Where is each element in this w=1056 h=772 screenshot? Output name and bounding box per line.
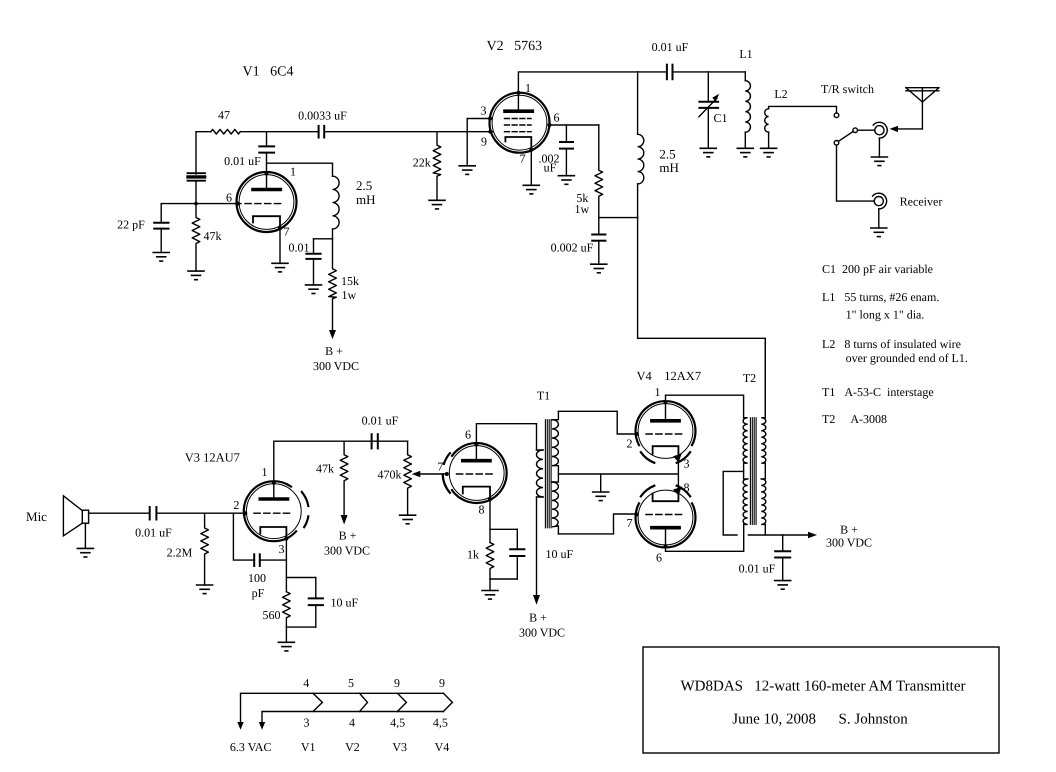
tube V4a grid (646, 433, 682, 435)
svg-text:9: 9 (481, 135, 487, 149)
svg-text:47k: 47k (204, 229, 222, 243)
wire 100pF to cathode line (261, 559, 287, 561)
arrow mark V4b cathode exit (673, 487, 682, 496)
wire V1 pin7 to ground (279, 229, 281, 263)
junction crystal/47k node (194, 202, 198, 206)
wire V4a plate to T2 (666, 395, 744, 418)
wire V3a cathode down (285, 539, 287, 592)
capacitor 0.01 uF mic (150, 507, 157, 520)
ground antenna jack (871, 157, 887, 166)
capacitor 0.01 uF coupling top (667, 65, 673, 80)
tube V2 envelope (490, 93, 550, 153)
svg-text:T2: T2 (743, 371, 756, 385)
svg-text:10 uF: 10 uF (331, 596, 359, 610)
svg-text:0.01: 0.01 (289, 241, 310, 255)
pin dot V4b pin6 (664, 544, 668, 548)
pin dot V3b pin7 (445, 472, 449, 476)
svg-text:47k: 47k (316, 462, 334, 476)
crystal Y1 (188, 173, 206, 181)
notes text block (822, 262, 968, 426)
svg-text:9: 9 (394, 676, 400, 690)
capacitor 22 pF (154, 204, 168, 253)
svg-text:8: 8 (479, 503, 485, 517)
svg-text:560: 560 (263, 608, 281, 622)
tube V3b grid (457, 473, 493, 475)
wire plate feedback branch (267, 163, 333, 176)
svg-text:mH: mH (356, 192, 376, 207)
svg-text:7: 7 (437, 460, 443, 474)
ground 0.002 cap (591, 264, 607, 273)
tube V1 cathode (253, 216, 280, 229)
wire V2 pin3 branch (467, 119, 488, 132)
arrow B+ T2 (808, 532, 817, 538)
wiper arrow 470k (412, 471, 447, 477)
inductor 2.5 mH plate choke (638, 134, 644, 217)
transformer T2 primary lower (743, 479, 748, 525)
svg-text:7: 7 (627, 516, 633, 530)
microphone symbol (63, 496, 88, 549)
svg-text:V4 12AX7: V4 12AX7 (637, 369, 702, 383)
svg-text:V3: V3 (392, 740, 407, 754)
resistor 560 (283, 592, 291, 627)
capacitor 10 uF V3b (510, 529, 524, 579)
svg-text:T1: T1 (537, 389, 550, 403)
transformer T2 secondary lower (761, 479, 766, 535)
wire choke bottom junction (314, 238, 333, 240)
capacitor .002 uF screen (560, 125, 573, 176)
svg-text:1k: 1k (467, 548, 479, 562)
ground .002 cap (558, 176, 574, 185)
resistor 47k (192, 204, 200, 272)
heater tube labels (301, 740, 449, 754)
wire V3b plate to T1 (476, 424, 536, 444)
tube V4b plate (652, 528, 679, 546)
resistor 5k 1w (595, 125, 603, 218)
svg-text:V1: V1 (301, 740, 316, 754)
ground 22pF (153, 253, 169, 262)
svg-text:L1 55 turns, #26 enam.: L1 55 turns, #26 enam. (822, 290, 939, 304)
tube V3b envelope (443, 443, 507, 503)
title box frame (643, 647, 999, 753)
capacitor 10 uF cathode (309, 578, 323, 628)
wire V3b cathode down (489, 499, 491, 542)
svg-text:22 pF: 22 pF (117, 218, 145, 232)
svg-text:6: 6 (656, 551, 662, 565)
wire mic to coupling cap (89, 512, 150, 514)
svg-text:15k: 15k (341, 274, 359, 288)
wire 1k bottom tee (490, 578, 517, 580)
svg-text:0.01 uF: 0.01 uF (224, 154, 261, 168)
svg-text:L2 8 turns of insulated wire: L2 8 turns of insulated wire (822, 337, 961, 351)
resistor 2.2M (201, 513, 209, 585)
svg-text:8: 8 (684, 481, 690, 495)
ground 1k (482, 591, 498, 600)
wire cathode tee to 10uF (490, 528, 517, 530)
svg-text:over grounded end of L1.: over grounded end of L1. (846, 351, 968, 365)
arrow heater left 1 (237, 722, 243, 730)
transformer T1 secondary lower (552, 482, 559, 534)
svg-text:June 10, 2008 S. Johnston: June 10, 2008 S. Johnston (732, 712, 908, 728)
wire 0.0033 cap to V2 grid line (325, 131, 492, 133)
wire cap to V3a grid (157, 512, 245, 514)
capacitor 0.0033 uF (319, 126, 325, 138)
arrow B+ V3a (341, 515, 348, 525)
svg-text:1: 1 (655, 385, 661, 399)
switch arm (838, 131, 853, 141)
ground V2 cathode (523, 185, 539, 194)
pin dot V1 pin7 (278, 226, 282, 230)
receiver jack connector (873, 193, 887, 228)
tube V4a envelope (636, 401, 696, 463)
ground 47k (188, 271, 204, 280)
svg-text:C1: C1 (713, 111, 727, 125)
tube V1 grid (245, 203, 281, 205)
tube V2 plate (505, 93, 532, 111)
tube V4b grid (646, 514, 682, 516)
pin dot V3b pin6 (474, 442, 478, 446)
pin dot V2 pin9 (488, 130, 492, 134)
arrow B+ T1 (533, 595, 540, 605)
svg-text:WD8DAS 12-watt 160-meter AM: WD8DAS 12-watt 160-meter AM Transmitter (681, 679, 966, 695)
svg-text:7: 7 (284, 225, 290, 239)
tube V4b cathode (653, 490, 679, 501)
resistor 47k plate load (340, 441, 348, 517)
switch contact top (834, 113, 839, 118)
wire B+ line right segment (748, 534, 810, 536)
tube V2 grid1 row (505, 118, 532, 120)
resistor 47 (211, 129, 241, 134)
wire 100pF branch (233, 513, 253, 560)
ground mic (77, 548, 93, 557)
ground V1 cathode (272, 263, 288, 272)
ground receiver jack (871, 228, 887, 237)
svg-text:1w: 1w (574, 202, 589, 216)
svg-text:1w: 1w (342, 288, 357, 302)
svg-text:V2 5763: V2 5763 (486, 39, 542, 54)
svg-text:6: 6 (226, 191, 232, 205)
wire 560 to ground (285, 627, 287, 642)
svg-text:B +: B + (529, 611, 547, 625)
svg-text:6.3 VAC: 6.3 VAC (230, 740, 272, 754)
svg-text:0.01 uF: 0.01 uF (652, 40, 689, 54)
wire V2 pin7 to ground (530, 150, 532, 185)
heater chevron V2-V3 (360, 693, 368, 711)
wire cathode net top (286, 577, 315, 579)
svg-text:9: 9 (439, 676, 445, 690)
svg-text:7: 7 (520, 152, 526, 166)
tube V3a plate (260, 482, 287, 500)
pin dot V2 pin7 (529, 148, 533, 152)
wire V1 grid line (161, 203, 241, 205)
svg-text:uF: uF (544, 161, 557, 175)
wire top node down to choke (637, 72, 639, 134)
svg-text:T/R switch: T/R switch (821, 82, 874, 96)
label .002 uF (539, 152, 560, 175)
svg-text:1: 1 (262, 465, 268, 479)
svg-text:V3 12AU7: V3 12AU7 (185, 451, 240, 465)
wire cap to L1 corner (674, 71, 746, 73)
switch pole middle (853, 128, 858, 133)
svg-text:0.01 uF: 0.01 uF (362, 414, 399, 428)
svg-text:6: 6 (465, 428, 471, 442)
svg-text:47: 47 (218, 108, 230, 122)
svg-text:3: 3 (684, 457, 690, 471)
pin dot V2 pin3 (488, 117, 492, 121)
pin dot V1 pin1 (265, 172, 269, 176)
svg-text:Receiver: Receiver (900, 195, 943, 209)
ground 560 (278, 642, 294, 651)
transformer T2 primary upper (743, 418, 748, 479)
svg-text:mH: mH (659, 160, 679, 175)
heater chevron V3-V4 (397, 693, 406, 711)
svg-text:V1 6C4: V1 6C4 (243, 65, 294, 80)
capacitor 0.01 uF interstage (372, 434, 378, 448)
wire T2 center tap (723, 471, 743, 535)
switch contact bottom (834, 141, 839, 146)
svg-text:6: 6 (554, 111, 560, 125)
pin dot V2 pin1 (516, 91, 520, 95)
svg-text:1" long x 1" dia.: 1" long x 1" dia. (846, 308, 925, 322)
wire osc top-left vertical (196, 132, 211, 174)
svg-text:T1 A-53-C interstage: T1 A-53-C interstage (822, 385, 934, 399)
wire T1 center tap (558, 473, 678, 475)
wire V4b plate to T2 bottom (666, 524, 744, 551)
svg-text:L2: L2 (774, 87, 787, 101)
svg-text:5: 5 (348, 676, 354, 690)
tube V3b cathode (463, 487, 490, 498)
tube V2 grid3 row (505, 131, 532, 133)
svg-text:pF: pF (252, 586, 265, 600)
wire antenna to jack with arrow (890, 126, 923, 132)
svg-text:2.5: 2.5 (356, 178, 372, 193)
resistor 22k (433, 132, 441, 201)
resistor 15k 1w (329, 239, 337, 332)
transformer T2 secondary upper (761, 338, 766, 479)
svg-text:T2 A-3008: T2 A-3008 (822, 412, 887, 426)
tube V3a cathode (260, 527, 286, 538)
wire CT ground stub (600, 474, 602, 492)
ground 2.2M (197, 585, 213, 594)
tube V2 grid2 row (505, 124, 532, 126)
svg-text:1: 1 (290, 165, 296, 179)
svg-text:300 VDC: 300 VDC (324, 544, 370, 558)
arrow mark V4a cathode exit (673, 453, 682, 462)
svg-text:10 uF: 10 uF (546, 547, 574, 561)
pin dot V3a pin2 (243, 511, 247, 515)
svg-text:C1 200 pF air variable: C1 200 pF air variable (822, 262, 933, 276)
inductor L2 (765, 109, 769, 149)
ground 0.01 bypass (775, 581, 791, 590)
inductor 2.5 mH osc choke (333, 176, 340, 239)
tube V1 plate (253, 172, 280, 190)
svg-text:B +: B + (840, 523, 858, 537)
label 100 pF (248, 571, 266, 600)
label 2.5 mH choke (659, 147, 679, 176)
svg-text:V4: V4 (435, 740, 450, 754)
wire T1 secondary top to V4 pin2 (558, 411, 634, 434)
heater pin labels top (303, 676, 445, 690)
tube V3a grid (254, 512, 290, 514)
pin dot V2 pin6 (547, 123, 551, 127)
arrow B+ oscillator (329, 330, 336, 339)
ground 470k (400, 515, 416, 524)
ground C1 (700, 148, 716, 157)
antenna symbol (906, 88, 939, 129)
ground L2 (761, 148, 777, 157)
tube V4a cathode (653, 446, 679, 458)
transformer T1 primary (536, 424, 543, 595)
arrow heater left 2 (259, 722, 265, 730)
svg-text:3: 3 (279, 542, 285, 556)
svg-text:1: 1 (525, 81, 531, 95)
capacitor 0.01 uF B+ bypass (775, 535, 790, 581)
wire cathode net bottom (286, 626, 315, 628)
pin dot V3a pin1 (272, 481, 276, 485)
transformer T1 secondary upper (552, 411, 559, 482)
potentiometer 470k (404, 441, 412, 515)
wire crystal to grid line (195, 182, 197, 204)
wire V4 cathodes vertical (677, 446, 679, 501)
tube V4a plate (652, 403, 679, 421)
wire T1 secondary bottom to V4 pin7 (558, 514, 634, 534)
pin dot V3b pin8 (488, 497, 492, 501)
wire top node to L1 (638, 71, 666, 73)
pin dot V4a pin1 (664, 400, 668, 404)
svg-text:0.0033 uF: 0.0033 uF (298, 109, 347, 123)
resistor 1k (486, 543, 494, 580)
wire 47 to 0.0033 cap (240, 131, 317, 133)
svg-text:300 VDC: 300 VDC (826, 536, 872, 550)
svg-text:Mic: Mic (26, 509, 47, 524)
svg-text:4: 4 (349, 716, 355, 730)
wire V2 grid ground stub (466, 132, 468, 166)
heater pin labels bottom (304, 716, 448, 730)
svg-text:2.2M: 2.2M (167, 546, 193, 560)
svg-text:0.01 uF: 0.01 uF (739, 562, 776, 576)
heater chevron V1-V2 (313, 693, 322, 711)
svg-text:22k: 22k (413, 156, 431, 170)
svg-text:B +: B + (339, 529, 357, 543)
heater end chevron (443, 693, 452, 711)
wire switch to receiver jack (837, 145, 874, 201)
inductor L1 (745, 72, 750, 148)
tube V2 cathode (505, 137, 531, 149)
transformer T1 core (545, 420, 551, 528)
tube V4b envelope (635, 486, 695, 548)
pin dot V4a pin2 (635, 432, 639, 436)
pin dot V4b pin7 (635, 513, 639, 517)
ground 22k (429, 200, 445, 209)
wire V2 plate to top node (518, 72, 637, 93)
ground T1 center tap (593, 492, 609, 501)
capacitor 0.002 uF (592, 218, 605, 265)
transformer T2 core (750, 418, 756, 525)
tube V3b plate (463, 443, 490, 461)
wire choke line to T2 secondary (638, 218, 766, 418)
capacitor 0.01 screen bypass (306, 239, 320, 285)
pin dot V1 pin6 (236, 202, 240, 206)
wire V3a plate top (274, 441, 408, 483)
svg-text:0.01 uF: 0.01 uF (135, 526, 172, 540)
heater bus bottom line (262, 712, 443, 726)
svg-text:100: 100 (248, 571, 266, 585)
svg-text:0.002 uF: 0.002 uF (551, 241, 594, 255)
svg-text:B +: B + (325, 344, 343, 358)
svg-text:4: 4 (303, 676, 309, 690)
svg-text:2: 2 (233, 498, 239, 512)
svg-text:4,5: 4,5 (390, 716, 405, 730)
capacitor C1 variable (699, 72, 719, 148)
svg-text:3: 3 (481, 104, 487, 118)
wire 1k to ground (489, 579, 491, 591)
svg-text:V2: V2 (345, 740, 360, 754)
heater bus top line (241, 693, 444, 725)
svg-text:300 VDC: 300 VDC (519, 626, 565, 640)
ground L1 (737, 148, 753, 157)
ground V2 grid stub (459, 166, 475, 175)
svg-text:3: 3 (304, 716, 310, 730)
svg-text:300 VDC: 300 VDC (313, 359, 359, 373)
svg-text:4,5: 4,5 (433, 716, 448, 730)
pin dot V3a pin3 (284, 537, 288, 541)
wire V2 screen pin6 (549, 124, 598, 126)
wire L2 to switch (769, 106, 837, 113)
wire pole to antenna jack (858, 129, 875, 131)
antenna jack connector (873, 122, 887, 157)
svg-text:2: 2 (627, 437, 633, 451)
capacitor 100 pF (254, 554, 260, 566)
label 2.5 mH (356, 178, 376, 207)
svg-text:L1: L1 (739, 47, 752, 61)
ground 0.01 cap (306, 285, 322, 294)
svg-text:470k: 470k (378, 468, 402, 482)
capacitor 0.01 uF grid V1 (259, 132, 274, 172)
wire 5k to choke line (599, 217, 638, 219)
tube V1 envelope (237, 172, 297, 232)
tube V3a envelope (244, 481, 308, 541)
